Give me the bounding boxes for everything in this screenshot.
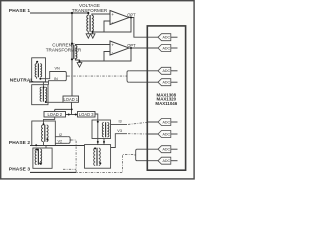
svg-text:ADC: ADC — [163, 69, 171, 73]
svg-text:I3: I3 — [119, 119, 122, 123]
svg-text:ADC: ADC — [163, 132, 171, 136]
svg-text:+: + — [111, 12, 114, 17]
svg-text:ADC: ADC — [163, 159, 171, 163]
svg-text:ADC: ADC — [163, 81, 171, 85]
svg-text:TRANSFORMER: TRANSFORMER — [72, 8, 108, 13]
svg-text:PHASE 2: PHASE 2 — [9, 140, 30, 146]
svg-text:V2: V2 — [58, 140, 63, 144]
svg-text:I2: I2 — [59, 133, 62, 137]
svg-text:V3: V3 — [117, 129, 122, 133]
svg-text:LOAD 2: LOAD 2 — [48, 112, 63, 117]
svg-text:ADC: ADC — [163, 120, 171, 124]
svg-text:MAX11046: MAX11046 — [155, 101, 177, 106]
svg-text:VN: VN — [55, 66, 61, 70]
svg-text:NEUTRAL: NEUTRAL — [10, 77, 34, 83]
svg-text:IN: IN — [54, 77, 58, 81]
svg-text:ADC: ADC — [163, 148, 171, 152]
svg-text:LOAD 3: LOAD 3 — [79, 112, 94, 117]
svg-text:PHASE 1: PHASE 1 — [9, 8, 30, 14]
svg-text:+: + — [111, 43, 114, 48]
svg-text:LOAD 1: LOAD 1 — [64, 97, 79, 102]
svg-text:PHASE 3: PHASE 3 — [9, 167, 30, 173]
svg-text:ADC: ADC — [163, 36, 171, 40]
svg-text:ADC: ADC — [163, 46, 171, 50]
